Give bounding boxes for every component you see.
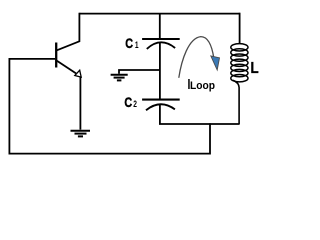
svg-text:1: 1: [135, 40, 139, 50]
svg-text:C: C: [125, 35, 133, 51]
svg-text:L: L: [251, 60, 259, 77]
svg-text:C: C: [124, 94, 132, 110]
svg-text:2: 2: [133, 99, 137, 109]
svg-text:Loop: Loop: [190, 80, 215, 92]
